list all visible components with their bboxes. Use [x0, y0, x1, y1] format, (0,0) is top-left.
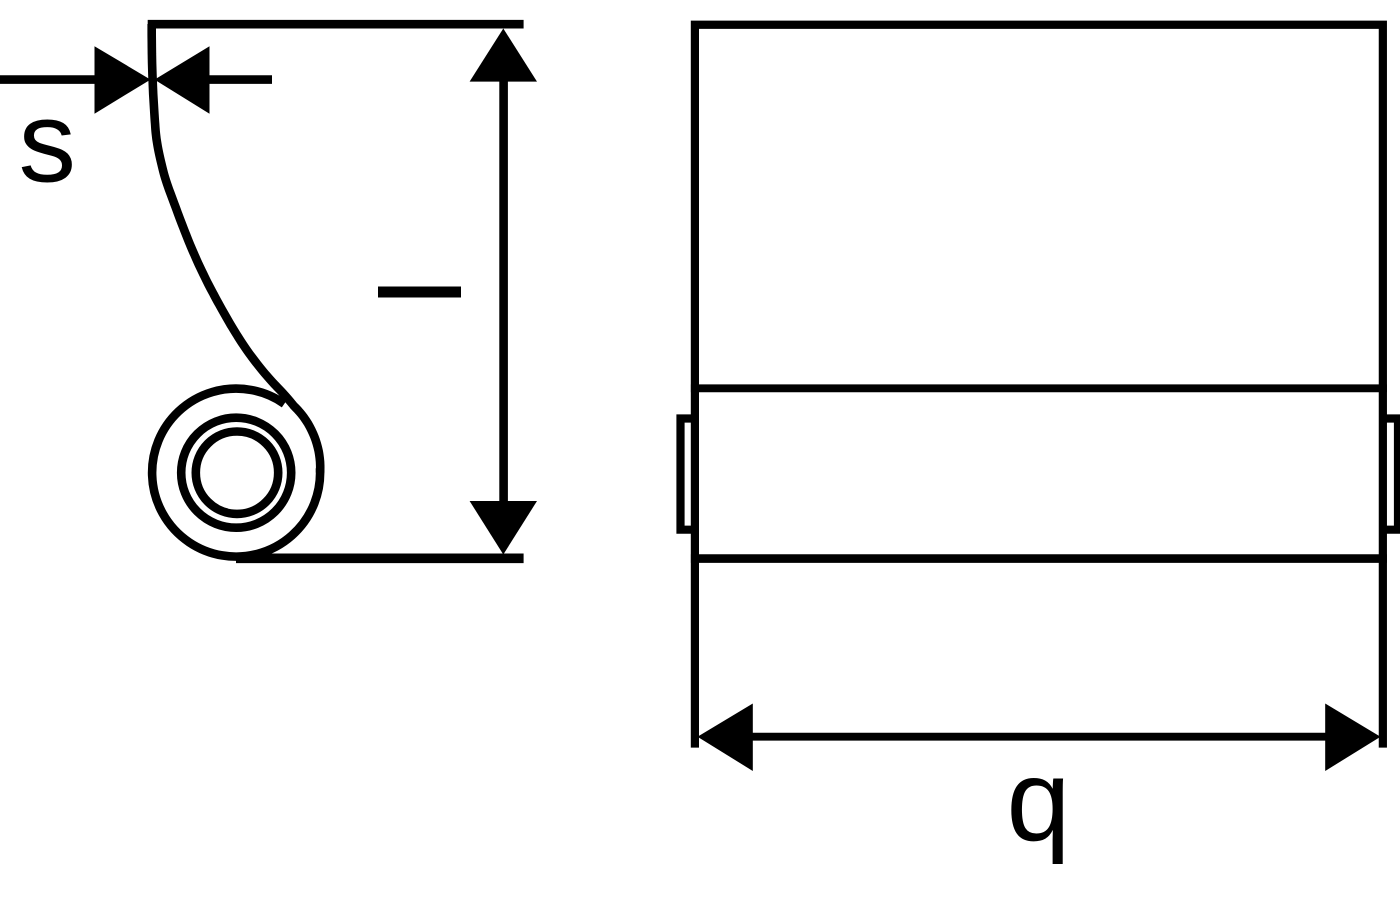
roll middle circle	[181, 418, 291, 528]
right figure: upper band line	[691, 384, 1387, 392]
right figure: roll side-view outline (left, top, right edges)	[695, 25, 1383, 748]
s dimension: right extension line	[209, 75, 272, 84]
q dimension line	[750, 733, 1329, 741]
roll inner circle	[196, 432, 278, 514]
left figure: unrolled sheet top line	[148, 20, 524, 29]
left figure: vertical dimension line	[499, 78, 508, 503]
s dimension: left-pointing arrowhead	[155, 46, 210, 114]
right figure: right end-cap tab	[1383, 419, 1398, 530]
svg-text:s: s	[19, 79, 77, 207]
svg-text:q: q	[1007, 737, 1071, 865]
right figure: left end-cap tab	[681, 419, 695, 530]
left figure: sheet edge curve unrolling into the roll	[152, 24, 321, 473]
q dimension: left arrowhead	[698, 704, 753, 772]
s dimension: right-pointing arrowhead	[95, 46, 151, 114]
s dimension: left extension line	[0, 75, 96, 84]
right figure: lower band line	[691, 554, 1387, 563]
left figure: bottom line from roll to right	[236, 553, 524, 563]
vertical dimension: up arrowhead	[470, 29, 537, 82]
q dimension: right arrowhead	[1325, 704, 1380, 772]
vertical dimension: down arrowhead	[470, 501, 537, 555]
roll outer circle	[152, 389, 320, 557]
dimension label (dash)	[378, 287, 461, 298]
